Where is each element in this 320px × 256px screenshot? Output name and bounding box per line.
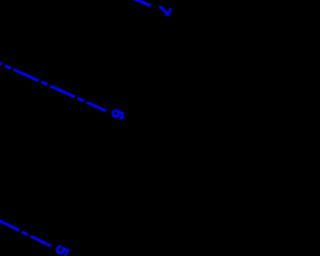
- contour line 7 (top dash segment): [133, 0, 151, 6]
- contour line 6 (middle dash-dot line): [0, 50, 106, 111]
- contour line 5 (bottom dash-dot line): [0, 206, 50, 246]
